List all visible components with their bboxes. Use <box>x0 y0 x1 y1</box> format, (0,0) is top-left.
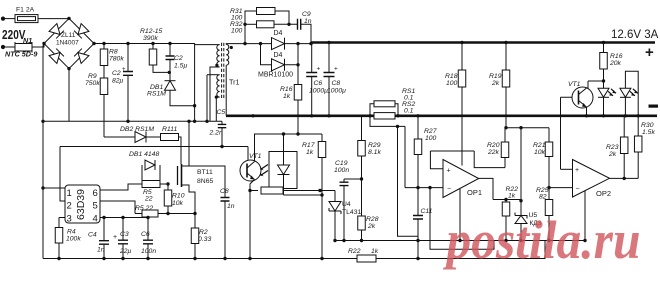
junction R21 / R25 / OP2 minus <box>547 186 550 189</box>
junction rail / RS right <box>396 114 399 117</box>
bridge diode top-right <box>74 24 89 39</box>
wire HV+ to primary top <box>195 44 220 45</box>
svg-text:1k: 1k <box>371 248 379 255</box>
resistor R25 82 <box>545 200 553 216</box>
junction C11 / ground rail <box>416 257 419 260</box>
svg-text:2.2n: 2.2n <box>209 130 223 137</box>
svg-text:1n: 1n <box>97 247 105 254</box>
svg-text:0.33: 0.33 <box>198 236 211 243</box>
wire R29 to R28 <box>361 156 363 216</box>
svg-text:R10: R10 <box>172 193 185 200</box>
wire OP2 ground pin <box>584 191 586 241</box>
junction left rail / pin1 <box>41 186 44 189</box>
capacitor C6 1000u <box>306 73 317 77</box>
wire control common y240.5 <box>335 240 585 242</box>
wire IC pin4 to C3 C6 <box>100 217 148 219</box>
bridge rectifier ZL11 1N4007 diamond <box>44 18 94 68</box>
resistor R19 2k <box>502 70 510 87</box>
svg-text:C3: C3 <box>120 231 129 238</box>
node secondary polarity dot <box>230 46 233 49</box>
svg-text:R20: R20 <box>487 142 500 149</box>
node AC neutral input terminal <box>1 45 5 49</box>
wire VT1 collector up <box>587 81 589 88</box>
wire base stub VT1 <box>561 96 579 98</box>
svg-text:C19: C19 <box>335 160 348 167</box>
wire R21 to OP2 minus <box>548 157 550 188</box>
LED optocoupler diode <box>278 165 290 175</box>
wire common loop segment <box>430 241 494 250</box>
junction emitter / U4 wire <box>248 189 251 192</box>
terminal - output <box>649 105 659 108</box>
wire OP1 minus input <box>405 187 443 189</box>
svg-text:750k: 750k <box>85 80 100 87</box>
svg-text:+: + <box>645 44 654 61</box>
wire bridge bottom to HV-minus bus <box>68 69 70 122</box>
wire R19 to y127.7 node <box>505 87 507 128</box>
wire sense tap left <box>370 116 405 127</box>
wire snubber left leg <box>245 11 257 44</box>
junction R28 / common <box>360 239 363 242</box>
svg-text:1k: 1k <box>508 193 516 200</box>
wire C11 to ground rail <box>417 219 419 259</box>
junction R27 / minus wire <box>416 186 419 189</box>
svg-text:12.6V 3A: 12.6V 3A <box>611 29 659 41</box>
wire R24 to U4 <box>283 190 335 192</box>
svg-text:100n: 100n <box>141 248 156 255</box>
svg-text:C2: C2 <box>174 55 183 62</box>
junction LED2 / R23 / rail <box>624 114 627 117</box>
diode D4 bottom MBR10100 <box>272 59 285 71</box>
junction HV+ / R12-15 <box>151 42 154 45</box>
svg-text:R17: R17 <box>302 142 315 149</box>
junction snubber left <box>243 42 246 45</box>
node bridge AC left <box>42 42 45 45</box>
wire AC neutral to NTC <box>3 46 15 48</box>
wire HV-minus bus y121.3 <box>43 120 222 122</box>
wire LED2 anode loop to R30 column <box>625 71 638 136</box>
wire IC pin5 to R6 <box>100 201 135 214</box>
wire VT1 emitter down <box>250 180 255 191</box>
junction D4 cathode / R16 <box>296 63 299 66</box>
wire to R22 vertical <box>505 200 507 203</box>
svg-text:1n: 1n <box>227 203 235 210</box>
svg-text:2k: 2k <box>608 151 617 158</box>
junction aux winding / HV-minus bus <box>205 120 208 123</box>
svg-text:C6: C6 <box>141 231 150 238</box>
svg-text:DB1 4148: DB1 4148 <box>129 151 159 158</box>
junction source sense node <box>193 212 196 215</box>
svg-text:82μ: 82μ <box>112 78 124 85</box>
junction U4 wire <box>318 189 321 192</box>
junction rectifier output <box>296 42 299 45</box>
junction C4 / ground rail <box>102 257 105 260</box>
wire HV+ to C2 1.5n <box>169 44 171 56</box>
wire R19/R20/R21 node <box>505 127 549 129</box>
wire R23 to OP2 out <box>623 154 625 179</box>
svg-text:OP2: OP2 <box>596 189 611 198</box>
wire base wire to VT1 <box>247 147 249 163</box>
wire secondary bottom to output ground rail <box>225 65 227 116</box>
svg-text:C4: C4 <box>88 232 97 239</box>
svg-text:390k: 390k <box>143 35 158 42</box>
junction pin4 wire / C3 <box>121 216 124 219</box>
wire R5 left to DB1 4148 <box>141 165 143 181</box>
resistor R22 1k on ground rail <box>357 255 376 262</box>
wire R111 to gate <box>179 137 182 164</box>
resistor R23 2k <box>620 137 628 154</box>
wire R2 to ground rail <box>194 244 196 259</box>
junction C2 / HV-minus bus <box>126 120 129 123</box>
capacitor C2 82u <box>123 72 133 76</box>
wire emitter to ground rail <box>249 191 251 259</box>
wire drain vertical <box>188 121 190 166</box>
wire HV+ to R12-15 <box>152 44 154 50</box>
wire to R32 <box>245 23 257 25</box>
resistor R6 22 <box>142 210 158 217</box>
junction R16 / opto wire <box>296 132 299 135</box>
junction R25 / common <box>547 239 550 242</box>
wire R6 to R2 node <box>158 213 195 215</box>
resistor R2 0.33 <box>191 228 199 244</box>
svg-text:100k: 100k <box>66 236 81 243</box>
svg-text:R9: R9 <box>88 73 97 80</box>
svg-text:+: + <box>575 167 579 174</box>
svg-text:R21: R21 <box>533 142 546 149</box>
junction R17 / opto cathode <box>320 193 323 196</box>
wire clamp return vertical <box>194 45 196 122</box>
node AC line input terminal <box>1 17 5 21</box>
resistor R20 22k <box>501 142 509 158</box>
LED VD1 <box>598 88 609 97</box>
diode DB2 RS1M <box>135 132 146 143</box>
wire rail to R29 <box>361 116 363 141</box>
svg-text:2k: 2k <box>491 80 500 87</box>
junction R30 column / rail <box>637 114 640 117</box>
wire OP1 out to U5/R22 <box>493 199 521 201</box>
svg-text:C5: C5 <box>217 109 226 116</box>
capacitor C8 1n <box>221 198 230 202</box>
svg-text:R12-15: R12-15 <box>140 28 163 35</box>
junction HV+ / C2 1.5n <box>168 42 171 45</box>
junction R19 / R20 <box>504 126 507 129</box>
resistor R5 22 <box>142 181 160 188</box>
junction C8 / ground rail <box>327 114 330 117</box>
svg-text:1k: 1k <box>283 93 291 100</box>
op-amp OP2 <box>573 160 610 198</box>
wire aux top down to HV-minus <box>206 75 208 122</box>
svg-text:R28: R28 <box>366 216 379 223</box>
wire to U4 TL431 <box>334 191 336 202</box>
junction R31 / R32 <box>287 23 290 26</box>
wire pin3 to R4 <box>58 218 60 228</box>
junction left rail / HV-minus <box>41 120 44 123</box>
resistor R21 10k <box>545 142 553 157</box>
svg-text:8N65: 8N65 <box>197 178 213 185</box>
junction OP2 out / R23 <box>623 177 626 180</box>
junction gate network / R10 <box>166 182 169 185</box>
junction +rail / R19 <box>504 41 507 44</box>
wire down to ground rail <box>321 195 323 259</box>
svg-text:22μ: 22μ <box>119 248 132 255</box>
wire C9 to output rail <box>301 24 311 42</box>
junction C11 / common wire <box>416 239 419 242</box>
capacitor C11 <box>413 216 423 220</box>
wire to OP1 plus input <box>430 151 443 169</box>
wire to C6 100n <box>147 218 149 240</box>
wire shunt right riser <box>395 104 398 116</box>
resistor R10 10k <box>164 190 172 206</box>
svg-text:3: 3 <box>67 214 72 225</box>
wire sense to OP1 minus <box>404 126 406 187</box>
svg-text:NTC 5D-9: NTC 5D-9 <box>5 50 37 59</box>
svg-text:1.5μ: 1.5μ <box>174 63 187 70</box>
junction VT1 emitter / ground rail <box>585 114 588 117</box>
wire ground rail right to control common <box>376 241 545 259</box>
svg-text:R22: R22 <box>348 248 361 255</box>
svg-text:Tr1: Tr1 <box>229 78 240 87</box>
svg-text:22k: 22k <box>487 149 500 156</box>
junction aux bottom <box>215 96 218 99</box>
wire R9 to DB2 <box>104 136 135 138</box>
svg-text:1.5k: 1.5k <box>642 129 655 136</box>
wire fuse to bridge top <box>38 18 69 20</box>
svg-text:D4: D4 <box>274 30 283 37</box>
svg-text:10k: 10k <box>534 149 546 156</box>
node bridge AC top <box>67 17 70 20</box>
wire C3 to ground rail <box>122 244 124 259</box>
resistor R24 <box>261 187 283 194</box>
wire lower D4 cathode up <box>285 44 299 65</box>
svg-text:N1: N1 <box>23 36 32 45</box>
node bridge DC+ right <box>92 42 95 45</box>
shunt regulator U4 TL431 <box>329 202 341 212</box>
wire HV+ to R8 <box>103 44 105 50</box>
resistor R16 20k <box>600 53 608 70</box>
wire R10 to y213 node <box>167 206 169 214</box>
op-amp OP1 <box>443 160 479 198</box>
capacitor C8 1000u <box>324 73 335 77</box>
transistor BT11 8N65 MOSFET <box>177 166 179 185</box>
resistor RS1 0.1 <box>374 101 395 107</box>
capacitor C5 2.2n <box>218 124 227 127</box>
svg-text:R30: R30 <box>641 122 654 129</box>
junction R4 / ground rail <box>57 257 60 260</box>
svg-text:C8: C8 <box>332 80 341 87</box>
junction D4 anodes <box>259 42 262 45</box>
svg-text:R2: R2 <box>199 229 208 236</box>
svg-text:R18: R18 <box>445 73 458 80</box>
wire pin4 to C4 <box>103 218 105 241</box>
wire LED1 to ground rail <box>603 97 605 116</box>
wire OP2 minus input <box>549 187 573 189</box>
LED VD2 arrows <box>630 89 638 96</box>
wire to lower D4 anode <box>261 44 272 65</box>
transistor VT1 output LED driver <box>572 87 593 108</box>
wire R31 to C9 node <box>275 11 289 24</box>
svg-text:100n: 100n <box>334 167 349 174</box>
svg-text:C8: C8 <box>220 188 229 195</box>
resistor R28 2k <box>358 216 366 230</box>
wire to LED1 <box>603 81 605 88</box>
wire to R21 <box>548 128 550 142</box>
wire sense down to common area <box>398 126 419 236</box>
svg-text:2: 2 <box>67 201 72 212</box>
junction sense wires <box>396 125 399 128</box>
wire rail to R18 <box>461 43 463 71</box>
svg-text:R8: R8 <box>109 49 118 56</box>
svg-text:VT1: VT1 <box>568 81 581 88</box>
wire NTC to bridge left <box>32 44 44 48</box>
wire opto cathode node <box>284 194 323 196</box>
wire OP2 plus input <box>561 168 573 170</box>
wire left rail to IC pin1 <box>43 187 65 189</box>
junction minus wire / common branch <box>428 186 431 189</box>
svg-text:63D39: 63D39 <box>75 189 87 220</box>
svg-text:RS1M: RS1M <box>147 91 166 98</box>
junction snubber right / rail <box>309 42 312 45</box>
resistor R17 1k <box>318 142 326 158</box>
svg-text:100: 100 <box>425 135 437 142</box>
wire MOSFET source to sense node <box>182 185 196 214</box>
junction snubber left node <box>243 23 246 26</box>
junction C8 / ground rail <box>223 257 226 260</box>
wire to U5 node <box>520 128 522 201</box>
wire IC pin6 to R5 <box>100 184 142 190</box>
resistor R12-15 390k <box>149 49 157 65</box>
wire R18 down to OP1 supply pin <box>461 87 463 166</box>
wire R25 to common <box>548 216 550 241</box>
junction / ground rail <box>320 257 323 260</box>
thermistor N1 NTC 5D-9 <box>15 44 32 52</box>
svg-text:8.1k: 8.1k <box>368 149 381 156</box>
node primary polarity dot <box>215 64 218 67</box>
svg-text:0.1: 0.1 <box>404 108 414 115</box>
resistor R22 1k vertical <box>502 202 510 216</box>
wire D4 cathode to R16 1k <box>297 65 299 85</box>
resistor R8 780k <box>100 49 108 66</box>
svg-text:OP1: OP1 <box>467 188 482 197</box>
wire R5 right to DB1 4148 <box>159 165 161 181</box>
junction C5 / base wire <box>220 145 223 148</box>
wire rail to R27 <box>417 116 419 139</box>
junction U4 / common <box>333 239 336 242</box>
junction clamp return <box>193 104 196 107</box>
wire to R20 <box>504 128 506 142</box>
svg-text:DB2 RS1M: DB2 RS1M <box>120 126 154 133</box>
svg-text:U4: U4 <box>342 201 351 208</box>
wire U4 to control common <box>334 211 336 241</box>
junction HV+ / C2 <box>126 42 129 45</box>
svg-text:20k: 20k <box>609 60 622 67</box>
wire to opto LED anode <box>283 134 285 165</box>
svg-text:+: + <box>317 66 321 73</box>
wire LED2 to ground rail <box>624 97 626 116</box>
svg-text:R111: R111 <box>162 126 177 133</box>
wire drain to C8 <box>189 166 225 197</box>
svg-text:C9: C9 <box>302 11 311 18</box>
junction C6 / ground rail <box>310 114 313 117</box>
wire left rail down from bridge left <box>43 44 44 259</box>
wire C19 to R29 <box>344 178 362 180</box>
junction LED1 / rail <box>602 114 605 117</box>
node bridge DC- bottom <box>67 67 70 70</box>
wire to R10 <box>167 184 169 190</box>
svg-text:−: − <box>576 185 580 192</box>
wire R22 to common <box>505 216 507 241</box>
wire R12-15 to clamp node <box>153 65 169 72</box>
junction R22 / common <box>504 239 507 242</box>
junction C19 / common <box>342 239 345 242</box>
wire emitter node to R24 <box>250 190 258 192</box>
diode D4 top MBR10100 <box>272 38 285 50</box>
svg-text:100: 100 <box>446 80 458 87</box>
junction emitter / ground rail <box>248 257 251 260</box>
svg-text:R27: R27 <box>424 128 437 135</box>
svg-text:5: 5 <box>93 201 98 212</box>
wire AC line to fuse <box>3 18 15 20</box>
resistor R29 8.1k <box>358 141 366 157</box>
svg-text:ZL11: ZL11 <box>61 32 76 39</box>
wire to R2 <box>194 214 196 229</box>
diode DB1 4148 <box>145 160 155 170</box>
wire collector to LED1 node <box>588 80 604 82</box>
optocoupler U3 box <box>269 152 297 189</box>
opto light arrows <box>261 165 269 176</box>
svg-text:6: 6 <box>93 188 98 199</box>
wire to C3 <box>122 218 124 240</box>
junction C6 / ground rail <box>146 257 149 260</box>
wire DB2 to R111 <box>146 136 161 138</box>
wire C6 to ground rail <box>147 244 149 259</box>
wire HV+ to C2 82u <box>127 44 129 72</box>
wire OP1 ground pin <box>459 189 461 241</box>
zener diode U5 <box>515 213 527 219</box>
fuse F1 2A <box>15 15 38 23</box>
junction C3 / ground rail <box>121 257 124 260</box>
junction / U5 branch <box>519 126 522 129</box>
junction R22 vertical top <box>504 198 507 201</box>
resistor R111 <box>161 134 179 141</box>
svg-text:+: + <box>122 67 126 73</box>
wire output ground rail thick <box>226 115 657 118</box>
LED VD2 <box>620 88 631 97</box>
wire shunt left riser <box>370 104 374 116</box>
wire base drive y146.5 <box>60 146 248 148</box>
wire aux bottom lead <box>216 97 219 121</box>
wire C8 to ground rail <box>328 77 330 116</box>
wire R20 to feedback <box>504 158 506 168</box>
resistor R32 100 <box>257 21 275 28</box>
junction U5 top <box>519 199 522 202</box>
svg-text:D4: D4 <box>274 52 283 59</box>
wire HV+ bus y43.5 <box>94 43 195 45</box>
svg-text:4: 4 <box>93 214 98 225</box>
wire rail to R19 <box>505 43 507 71</box>
resistor R30 1.5k <box>634 136 642 152</box>
svg-text:F1 2A: F1 2A <box>16 7 35 14</box>
junction rail / RS left <box>368 114 371 117</box>
wire OP2 output <box>610 177 639 179</box>
wire aux winding top lead <box>207 74 220 76</box>
transformer Tr1 aux winding <box>217 75 220 97</box>
junction R29 / C19 <box>360 177 363 180</box>
wire rail to C8 1000u <box>328 43 330 73</box>
wire R27 to OP1 minus <box>417 155 419 188</box>
svg-text:C6: C6 <box>314 80 323 87</box>
wire output +12.6V rail thick <box>311 41 655 44</box>
junction HV+ / R8 <box>102 42 105 45</box>
wire rail to R23 <box>623 116 625 137</box>
